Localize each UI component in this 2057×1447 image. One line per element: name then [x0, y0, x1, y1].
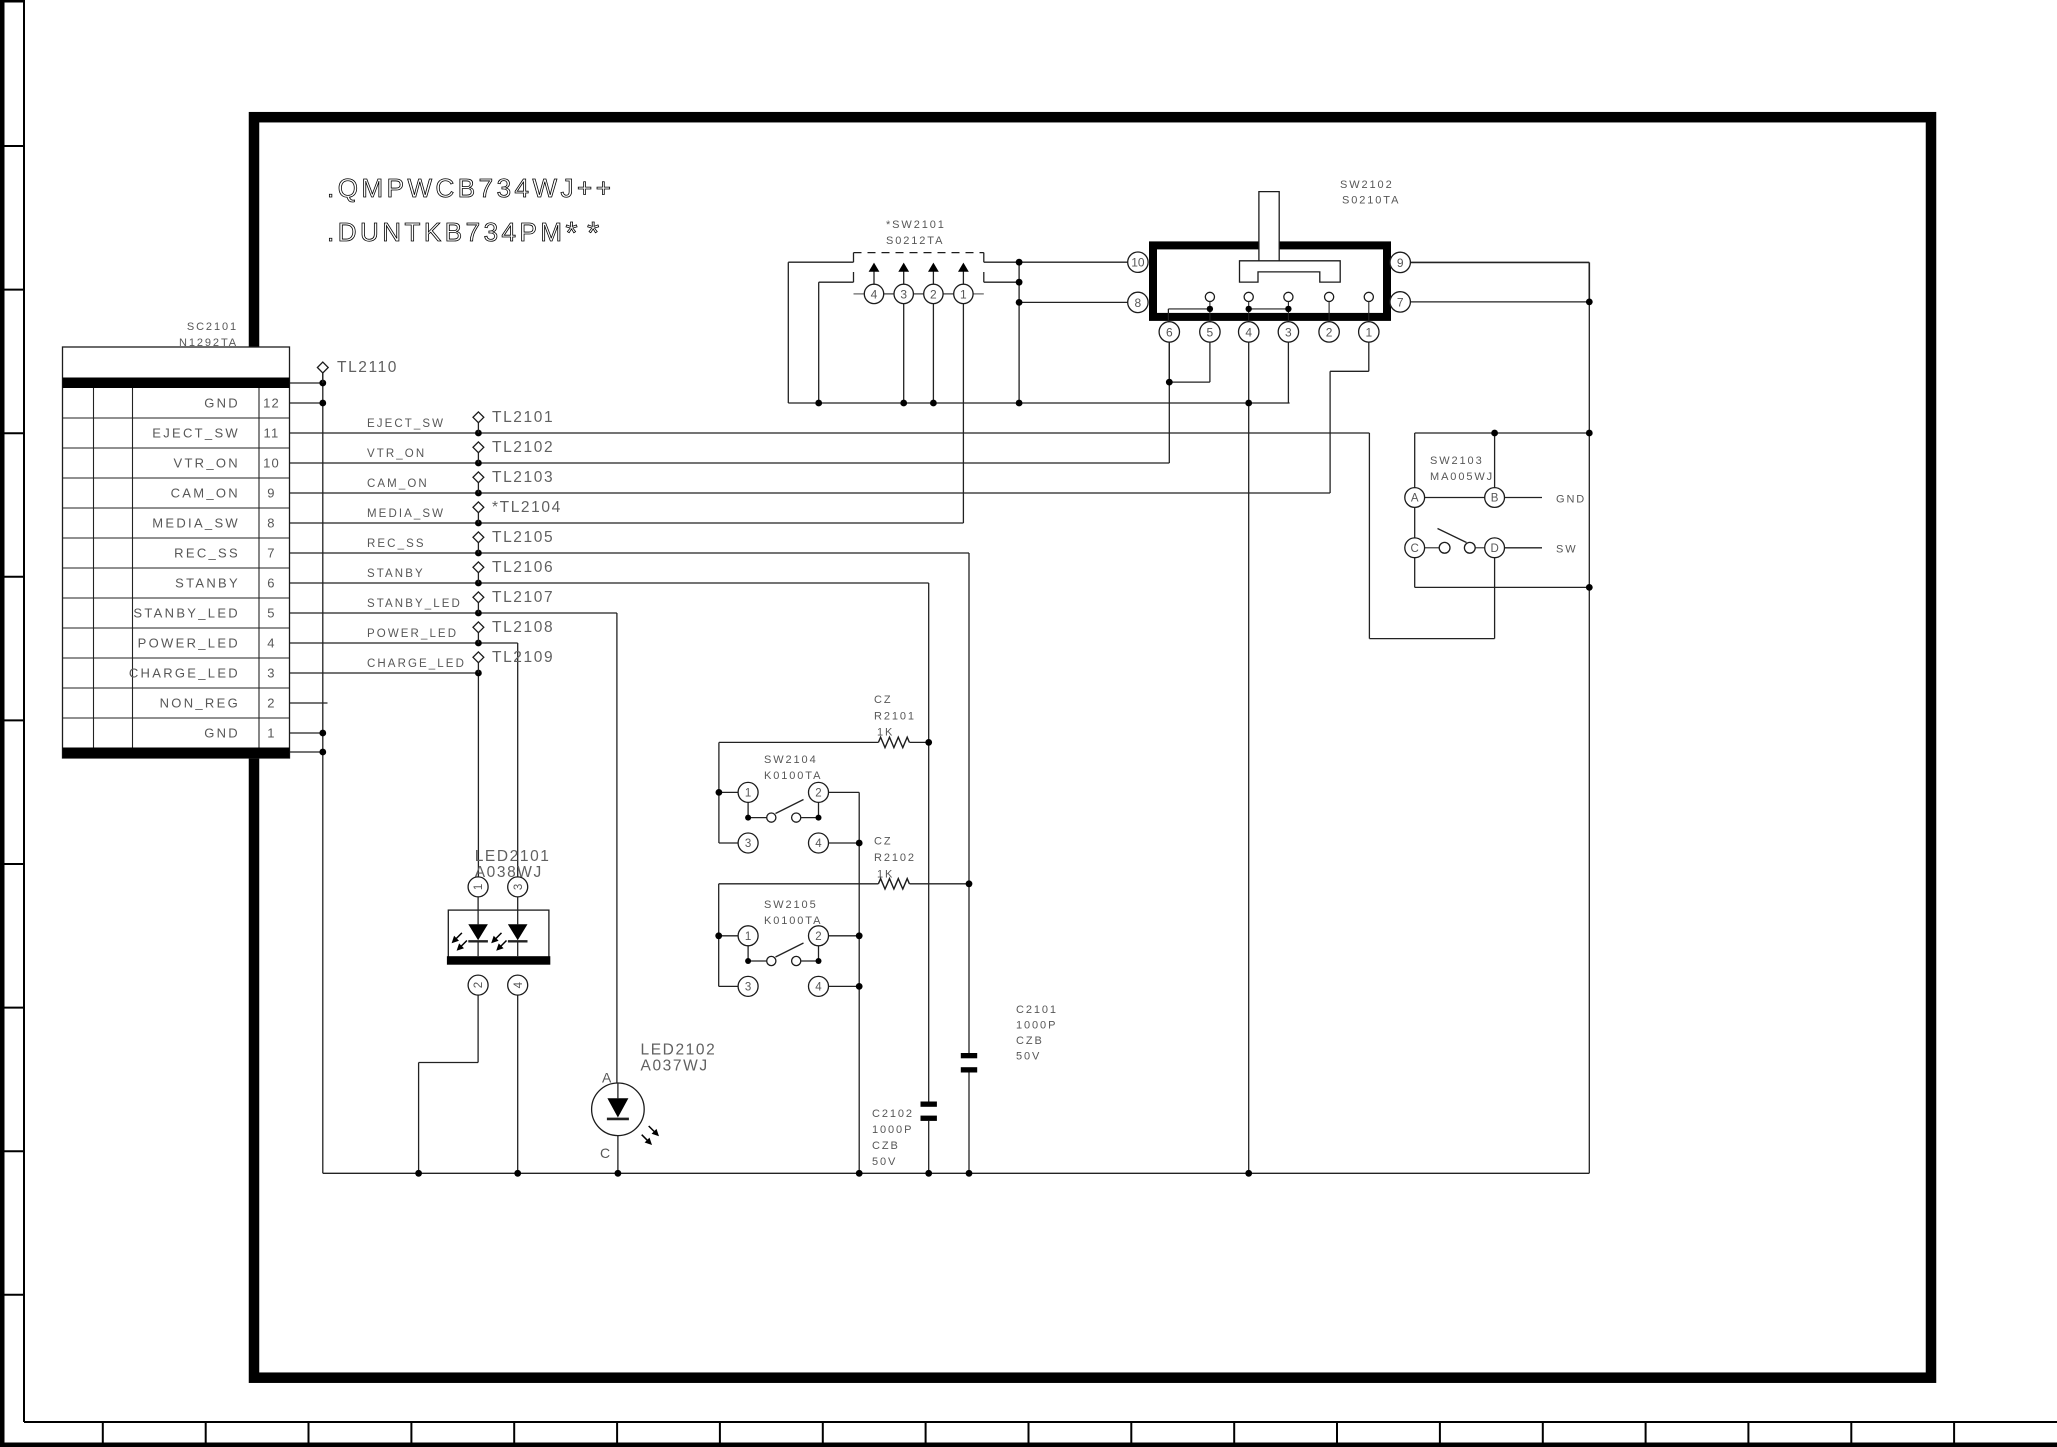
table row line	[63, 657, 290, 659]
SW2104 terminal 4	[809, 833, 829, 853]
svg-text:1K: 1K	[877, 869, 894, 881]
svg-text:A: A	[1411, 493, 1419, 505]
svg-text:3: 3	[1285, 325, 1292, 339]
svg-text:NON_REG: NON_REG	[160, 696, 240, 711]
wire SW2104 pin3 stub	[719, 842, 738, 844]
wire SW2102 pin7 lead	[1410, 301, 1589, 303]
SW2101 contact 3	[894, 284, 913, 303]
junction	[475, 430, 482, 437]
SW2101 contact 2	[924, 284, 943, 303]
svg-text:12: 12	[263, 396, 280, 411]
svg-text:2: 2	[930, 287, 937, 301]
wire SW2104 pin4 stub	[829, 842, 860, 844]
test point TL2105	[477, 543, 479, 553]
svg-text:*TL2104: *TL2104	[492, 499, 562, 516]
svg-text:GND: GND	[204, 396, 240, 411]
junction	[925, 739, 932, 746]
junction	[1245, 1170, 1252, 1177]
ruler bottom tick 6	[616, 1422, 618, 1443]
SW2104 terminal 2	[809, 782, 829, 802]
ruler bottom tick 16	[1645, 1422, 1647, 1443]
wire TL2110 stub	[290, 382, 323, 384]
wire SW2105 pole2	[818, 946, 820, 961]
SW2102 pin 1	[1359, 322, 1379, 342]
SW2102 pin 7	[1390, 292, 1410, 312]
ruler left tick 5	[0, 719, 24, 721]
junction	[319, 400, 326, 407]
junction	[319, 380, 326, 387]
switch SW2102 S0210TA body	[1153, 245, 1387, 317]
ruler bottom tick 13	[1336, 1422, 1338, 1443]
svg-text:GND: GND	[1556, 494, 1586, 506]
svg-text:3: 3	[745, 838, 751, 850]
wire CAM_ON net	[290, 492, 1331, 494]
svg-text:MEDIA_SW: MEDIA_SW	[367, 508, 445, 520]
svg-text:10: 10	[1131, 256, 1145, 270]
svg-text:1000P: 1000P	[1016, 1020, 1057, 1032]
junction	[1586, 430, 1593, 437]
junction	[1016, 279, 1023, 286]
junction	[1586, 584, 1593, 591]
svg-text:C2101: C2101	[1016, 1004, 1058, 1016]
svg-text:2: 2	[473, 982, 485, 988]
LED2102 body	[592, 1083, 645, 1136]
connector SC2101 N1292TA body	[63, 347, 290, 758]
svg-text:50V: 50V	[1016, 1051, 1041, 1063]
SW2102 pin 4	[1239, 322, 1259, 342]
table row line	[63, 567, 290, 569]
svg-text:SW2102: SW2102	[1340, 179, 1394, 191]
SW2103 C stub	[1425, 547, 1440, 549]
ruler bottom tick 3	[308, 1422, 310, 1443]
ruler left tick 1	[0, 145, 24, 147]
test point TL2104	[477, 513, 479, 523]
svg-text:3: 3	[900, 287, 907, 301]
svg-text:CAM_ON: CAM_ON	[171, 486, 240, 501]
SW2102 pin 5	[1200, 322, 1220, 342]
SW2102 contact 3	[1284, 292, 1293, 301]
SW2105 terminal 1	[738, 926, 758, 946]
wire SW2105 pin2 stub	[829, 935, 860, 937]
svg-text:9: 9	[1397, 256, 1404, 270]
SW2103 contact circles	[1439, 542, 1450, 553]
wire SW2101 pin2 down	[932, 304, 934, 404]
svg-text:SC2101: SC2101	[187, 321, 238, 333]
ruler bottom tick 15	[1542, 1422, 1544, 1443]
svg-text:STANBY_LED: STANBY_LED	[133, 606, 240, 621]
SW2102 contact 5 link to pin 6	[1209, 302, 1211, 309]
wire SW2102 pin8 lead	[1019, 301, 1128, 303]
svg-text:VTR_ON: VTR_ON	[367, 448, 426, 460]
svg-text:SW2104: SW2104	[764, 754, 818, 766]
test point TL2107	[477, 603, 479, 613]
svg-text:EJECT_SW: EJECT_SW	[367, 418, 445, 430]
SW2104 lever	[776, 800, 804, 814]
junction	[716, 789, 723, 796]
table row line	[63, 507, 290, 509]
wire SW2103 B up	[1494, 433, 1496, 488]
svg-text:4: 4	[267, 636, 275, 651]
svg-text:1: 1	[745, 931, 751, 943]
svg-text:SW2105: SW2105	[764, 899, 818, 911]
wire SW2105 pole1	[747, 946, 749, 961]
svg-text:8: 8	[1135, 296, 1142, 310]
SW2102 pin 9	[1390, 252, 1410, 272]
SW2101 arrow 3	[903, 272, 905, 285]
SW2102 contact 4	[1244, 292, 1253, 301]
svg-text:CHARGE_LED: CHARGE_LED	[367, 658, 466, 670]
svg-text:5: 5	[1207, 325, 1214, 339]
sheet bottom thick border	[0, 1443, 2057, 1447]
SW2101 arrow 4	[873, 272, 875, 285]
ruler bottom tick 10	[1028, 1422, 1030, 1443]
svg-text:2: 2	[815, 931, 821, 943]
ruler bottom tick 8	[822, 1422, 824, 1443]
svg-text:3: 3	[513, 884, 525, 890]
wire SW2104 pin2 lead	[829, 791, 860, 793]
wire SW2102 pin9 lead	[1410, 261, 1589, 263]
svg-text:1: 1	[473, 884, 485, 890]
svg-text:1000P: 1000P	[872, 1124, 913, 1136]
LED2101 pin 1	[468, 877, 488, 897]
svg-text:2: 2	[267, 696, 275, 711]
table row line	[63, 537, 290, 539]
svg-text:LED2102: LED2102	[641, 1042, 717, 1059]
LED2101 pin 3	[508, 877, 528, 897]
SW2104 terminal 3	[738, 833, 758, 853]
LED2101 pin 2	[468, 975, 488, 995]
table row line	[63, 417, 290, 419]
svg-text:STANBY_LED: STANBY_LED	[367, 598, 462, 610]
svg-text:5: 5	[267, 606, 275, 621]
LED2102 emission arrows	[652, 1129, 659, 1136]
test point TL2101	[477, 423, 479, 433]
junction	[415, 1170, 422, 1177]
junction	[900, 400, 907, 407]
SW2102 shaft	[1259, 192, 1279, 261]
wire SW2102 pin10 lead	[1019, 261, 1128, 263]
test point TL2108	[477, 633, 479, 643]
svg-text:2: 2	[1326, 325, 1333, 339]
SW2105 contact circles	[767, 956, 776, 965]
SW2101 contact 1	[954, 284, 973, 303]
svg-text:CZ: CZ	[874, 694, 892, 706]
wire SW2101 pin3 down	[903, 304, 905, 404]
wire SW2103 D SW lead	[1505, 547, 1543, 549]
svg-text:S0212TA: S0212TA	[886, 235, 944, 247]
wire SW2104 pole1	[747, 802, 749, 817]
ruler bottom tick 18	[1850, 1422, 1852, 1443]
svg-text:CZB: CZB	[1016, 1035, 1044, 1047]
junction	[475, 640, 482, 647]
switch SW2101 S0212TA dashed enclosure	[854, 252, 984, 254]
ruler left tick 4	[0, 576, 24, 578]
svg-text:TL2110: TL2110	[337, 359, 398, 376]
svg-text:4: 4	[815, 982, 822, 994]
SW2105 terminal 4	[809, 976, 829, 996]
SW2104 contact circles	[767, 813, 776, 822]
junction	[514, 1170, 521, 1177]
junction	[475, 490, 482, 497]
SW2102 contact 5	[1205, 292, 1214, 301]
svg-text:CZ: CZ	[874, 836, 892, 848]
svg-text:4: 4	[1245, 325, 1252, 339]
wire R2102 left lead	[719, 883, 879, 885]
svg-text:9: 9	[267, 486, 275, 501]
svg-text:STANBY: STANBY	[367, 568, 425, 580]
svg-text:.DUNTKB734PM* *: .DUNTKB734PM* *	[327, 215, 603, 250]
table column line	[258, 388, 260, 748]
wire GND pin1 stub	[290, 732, 323, 734]
wire SW2101 right upper slot	[984, 261, 1019, 263]
svg-text:C2102: C2102	[872, 1108, 914, 1120]
ruler bottom tick 14	[1439, 1422, 1441, 1443]
svg-text:CZB: CZB	[872, 1140, 900, 1152]
ruler bottom tick 12	[1233, 1422, 1235, 1443]
wire SW2105 pin3 stub	[719, 985, 738, 987]
SW2103 contact link stub	[1475, 547, 1485, 549]
SW2102 pin6 inner lead	[1167, 309, 1169, 322]
svg-text:REC_SS: REC_SS	[174, 546, 240, 561]
wire upper bus	[788, 402, 1289, 404]
wire SW2103 A-B link	[1425, 497, 1485, 499]
svg-text:TL2108: TL2108	[492, 619, 554, 636]
wire SW2101 left upper slot	[788, 261, 853, 263]
SW2105 lever	[776, 943, 804, 957]
LED2101 body	[448, 910, 549, 958]
svg-text:6: 6	[1166, 325, 1173, 339]
table row line	[63, 627, 290, 629]
wire STANBY net	[290, 582, 929, 584]
SW2103 terminal A	[1405, 488, 1425, 508]
svg-text:.QMPWCB734WJ++: .QMPWCB734WJ++	[327, 173, 614, 203]
svg-text:EJECT_SW: EJECT_SW	[152, 426, 240, 441]
ruler bottom tick 7	[719, 1422, 721, 1443]
wire GND rail	[322, 373, 324, 1173]
wire right rail pin7 to SW2103	[1588, 302, 1590, 433]
wire SW2102 pin6 to pin5 link	[1168, 342, 1170, 382]
svg-text:1K: 1K	[877, 727, 894, 739]
svg-text:S0210TA: S0210TA	[1342, 195, 1400, 207]
SW2103 lever	[1438, 529, 1467, 543]
ruler left tick 8	[0, 1150, 24, 1152]
svg-text:10: 10	[263, 456, 280, 471]
ruler bottom tick 1	[102, 1422, 104, 1443]
svg-text:STANBY: STANBY	[175, 576, 240, 591]
junction	[475, 550, 482, 557]
SW2105 terminal 3	[738, 976, 758, 996]
svg-text:SW2103: SW2103	[1430, 455, 1484, 467]
table row line	[63, 687, 290, 689]
LED2101 pin 4	[508, 975, 528, 995]
junction	[475, 610, 482, 617]
wire SW2101 left lower slot	[819, 281, 854, 283]
svg-text:1: 1	[1365, 325, 1372, 339]
svg-text:7: 7	[267, 546, 275, 561]
svg-text:K0100TA: K0100TA	[764, 770, 822, 782]
SW2102 pin 6	[1159, 322, 1179, 342]
junction	[1166, 379, 1173, 386]
SW2101 arrow 1	[962, 272, 964, 285]
svg-text:TL2106: TL2106	[492, 559, 554, 576]
ruler vertical line	[23, 0, 25, 1422]
svg-text:1: 1	[745, 788, 751, 800]
test point TL2109	[477, 663, 479, 673]
svg-text:CHARGE_LED: CHARGE_LED	[129, 666, 240, 681]
ruler bottom tick 4	[410, 1422, 412, 1443]
wire SW2105 pin1 stub	[719, 935, 738, 937]
svg-text:TL2102: TL2102	[492, 439, 554, 456]
table row line	[63, 717, 290, 719]
wire SW2103 A-C link	[1414, 507, 1416, 538]
wire SW2103 C down to rail	[1414, 558, 1416, 588]
schematic frame border	[254, 117, 1931, 1378]
svg-text:3: 3	[745, 982, 751, 994]
junction	[475, 580, 482, 587]
ruler top tick	[0, 0, 24, 3]
SW2103 terminal C	[1405, 538, 1425, 558]
SW2101 contact 4	[864, 284, 883, 303]
LED2101 diode element	[517, 897, 519, 924]
table row line	[63, 447, 290, 449]
junction	[966, 1170, 973, 1177]
svg-text:GND: GND	[204, 726, 240, 741]
LED2101 diode element	[477, 897, 479, 924]
svg-text:*SW2101: *SW2101	[886, 219, 946, 231]
junction	[856, 932, 863, 939]
junction	[475, 670, 482, 677]
test point TL2110	[322, 373, 324, 383]
SW2102 pin 2	[1319, 322, 1339, 342]
SW2102 pin 3	[1278, 322, 1298, 342]
svg-text:6: 6	[267, 576, 275, 591]
svg-text:TL2101: TL2101	[492, 409, 554, 426]
ruler left tick 7	[0, 1007, 24, 1009]
svg-text:A038WJ: A038WJ	[475, 864, 543, 881]
test point TL2106	[477, 573, 479, 583]
svg-text:A: A	[602, 1070, 612, 1086]
table column line	[132, 388, 134, 748]
svg-text:MEDIA_SW: MEDIA_SW	[152, 516, 240, 531]
junction	[475, 460, 482, 467]
table column line	[93, 388, 95, 748]
wire VTR_ON net	[290, 462, 1170, 464]
ruler bottom tick 5	[513, 1422, 515, 1443]
junction	[815, 400, 822, 407]
wire STANBY_LED net	[290, 612, 617, 614]
SW2102 contact 1	[1364, 292, 1373, 301]
svg-text:4: 4	[513, 981, 525, 988]
svg-text:POWER_LED: POWER_LED	[138, 636, 240, 651]
table row line	[63, 597, 290, 599]
junction	[1586, 299, 1593, 306]
wire NON_REG stub	[290, 702, 328, 704]
junction	[475, 520, 482, 527]
svg-text:3: 3	[267, 666, 275, 681]
svg-text:CAM_ON: CAM_ON	[367, 478, 429, 490]
table row line	[63, 477, 290, 479]
test point TL2103	[477, 483, 479, 493]
ruler horizontal line	[24, 1421, 2057, 1423]
SW2102 pin 8	[1128, 292, 1148, 312]
svg-text:POWER_LED: POWER_LED	[367, 628, 458, 640]
svg-text:R2102: R2102	[874, 852, 916, 864]
wire SW2101 right lower slot	[984, 281, 1019, 283]
junction	[319, 749, 326, 756]
SW2103 terminal D	[1485, 538, 1505, 558]
junction	[615, 1170, 622, 1177]
SW2102 contact 2	[1325, 292, 1334, 301]
ruler left tick 2	[0, 289, 24, 291]
wire SW2103 top link	[1415, 432, 1590, 434]
svg-text:1: 1	[960, 287, 967, 301]
junction	[1016, 259, 1023, 266]
svg-text:C: C	[1411, 543, 1419, 555]
wire SW2105 pin4 stub	[829, 985, 860, 987]
wire R2102 right lead	[910, 883, 970, 885]
ruler bottom tick 9	[925, 1422, 927, 1443]
junction	[1016, 400, 1023, 407]
junction	[715, 932, 722, 939]
ruler bottom tick 2	[205, 1422, 207, 1443]
svg-text:D: D	[1490, 543, 1498, 555]
junction	[930, 400, 937, 407]
svg-text:4: 4	[815, 838, 822, 850]
ruler bottom tick 19	[1953, 1422, 1955, 1443]
wire LED2101 pin4 to bus	[517, 995, 519, 1173]
sheet left thick border	[0, 0, 5, 1447]
test point TL2102	[477, 453, 479, 463]
svg-text:K0100TA: K0100TA	[764, 915, 822, 927]
junction	[856, 983, 863, 990]
svg-text:11: 11	[264, 426, 280, 441]
svg-text:TL2105: TL2105	[492, 529, 554, 546]
SW2102 pin 10	[1128, 252, 1148, 272]
svg-text:C: C	[600, 1145, 610, 1161]
wire bottom ground bus	[618, 1172, 1589, 1174]
SW2105 terminal 2	[809, 926, 829, 946]
svg-text:LED2101: LED2101	[475, 848, 551, 865]
ruler left tick 9	[0, 1294, 24, 1296]
SW2104 terminal 1	[738, 782, 758, 802]
wire LED2101 pin2 to bus	[477, 995, 479, 1062]
wire CHARGE_LED net	[290, 672, 479, 674]
svg-text:8: 8	[267, 516, 275, 531]
wire SW2101 right rail	[1018, 262, 1020, 403]
junction	[1245, 400, 1252, 407]
svg-text:R2101: R2101	[874, 711, 916, 723]
junction	[966, 880, 973, 887]
svg-text:B: B	[1491, 493, 1499, 505]
wire SW2102 pin3 down	[1287, 342, 1289, 403]
wire R2101 right lead	[910, 741, 929, 743]
svg-text:7: 7	[1397, 295, 1404, 309]
ruler left tick 3	[0, 432, 24, 434]
junction	[856, 1170, 863, 1177]
wire table bottom stub	[290, 751, 323, 753]
svg-text:1: 1	[267, 726, 275, 741]
wire POWER_LED net	[290, 642, 518, 644]
SW2103 terminal B	[1485, 488, 1505, 508]
svg-text:MA005WJ: MA005WJ	[1430, 471, 1494, 483]
wire R2101 left lead	[719, 741, 879, 743]
ruler left tick 6	[0, 863, 24, 865]
SW2102 contact 1 stub	[1368, 302, 1370, 322]
LED2101 emission arrows	[491, 936, 498, 943]
SW2101 contact links	[884, 293, 894, 295]
wire REC_SS net	[290, 552, 970, 554]
junction	[1491, 430, 1498, 437]
